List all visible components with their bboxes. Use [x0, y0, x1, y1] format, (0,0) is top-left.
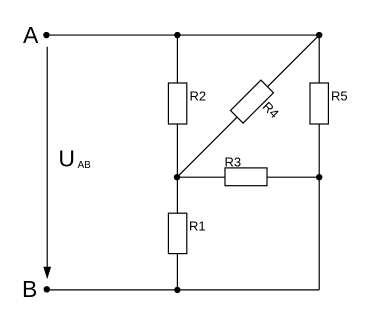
- svg-text:AB: AB: [78, 160, 92, 171]
- svg-text:R2: R2: [190, 88, 207, 103]
- junction top middle: [174, 32, 180, 38]
- node B: [22, 276, 50, 302]
- wire bottom rail B to bottom-right: [47, 289, 319, 291]
- svg-text:U: U: [58, 146, 75, 172]
- wire middle node to R1: [176, 177, 178, 213]
- wire right branch top (top-right to R5): [318, 35, 320, 83]
- svg-text:R5: R5: [331, 88, 348, 103]
- wire R3 to right branch: [267, 176, 319, 178]
- wire right junction to bottom rail: [318, 177, 320, 290]
- resistor R2: [168, 83, 206, 124]
- svg-text:R1: R1: [189, 218, 206, 233]
- wire R1 to bottom rail: [176, 254, 178, 290]
- voltage arrow line A to B: [46, 47, 48, 267]
- junction top right: [316, 32, 322, 38]
- junction middle node: [174, 174, 180, 180]
- junction right middle: [316, 174, 322, 180]
- wire middle node to R3: [177, 176, 225, 178]
- label U_AB: [58, 146, 91, 172]
- wire middle branch top (top rail to R2): [176, 35, 178, 83]
- voltage arrow head: [43, 267, 51, 280]
- junction bottom middle: [174, 287, 180, 293]
- svg-text:B: B: [22, 276, 37, 302]
- resistor R3: [225, 154, 268, 185]
- resistor R1: [168, 213, 205, 253]
- svg-text:R3: R3: [225, 154, 242, 169]
- resistor R4: [231, 80, 282, 123]
- svg-text:A: A: [23, 22, 39, 48]
- wire R2 to middle node: [176, 124, 178, 177]
- node A: [23, 22, 50, 48]
- wire R5 to right junction: [318, 124, 320, 177]
- wire top rail A to top-right: [46, 34, 319, 36]
- wire diagonal middle node to top-right: [177, 35, 319, 177]
- resistor R5: [310, 83, 348, 124]
